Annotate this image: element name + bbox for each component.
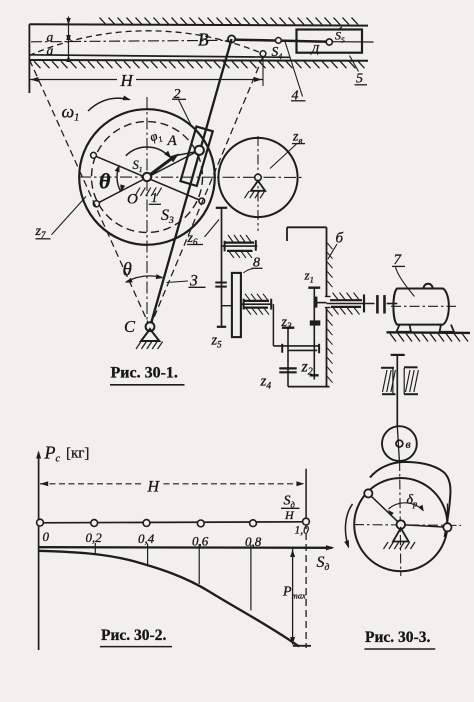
svg-text:H: H: [284, 508, 295, 522]
label S3: [161, 207, 174, 226]
label a lower: [47, 43, 54, 58]
gear zB ground hatching: [245, 191, 265, 198]
tick label 0,2: [86, 530, 103, 545]
rod bearing left block: [381, 368, 396, 394]
dimension H stroke of slider: [29, 57, 263, 87]
cam ground hatching: [384, 542, 416, 549]
label v roller: [406, 437, 411, 451]
slider block 2 on link 3: [180, 126, 212, 185]
gear z5 tall wheel: [232, 273, 241, 337]
svg-text:S5: S5: [335, 29, 345, 45]
label 4 with leader: [285, 42, 306, 104]
gear z1 bar: [308, 287, 320, 289]
graph y-axis Pc: [36, 451, 41, 651]
clutch bars on shaft I: [279, 368, 296, 372]
label S5: [335, 27, 345, 45]
dimension a (guide offset): [66, 17, 71, 63]
bottom rail hatching: [34, 61, 365, 68]
dimension Pmax: [290, 549, 295, 645]
follower rod top bar: [391, 354, 405, 356]
dimension H on graph: [40, 481, 305, 486]
left pin: [364, 489, 372, 497]
gear mesh line upper: [273, 345, 319, 347]
tick label 0,6: [192, 534, 209, 549]
shaft bottom bar: [217, 326, 226, 328]
pivot C pin: [146, 322, 155, 331]
cam horizontal centreline: [354, 524, 461, 527]
wheel horizontal centreline: [79, 176, 303, 178]
label theta at C: [123, 260, 132, 281]
svg-text:z7: z7: [35, 224, 46, 240]
caption Ris.30-1: [110, 365, 185, 385]
link from bearing B down: [272, 304, 274, 346]
svg-text:δp: δp: [407, 493, 418, 509]
scale node 1.0: [303, 518, 310, 525]
svg-text:H: H: [120, 71, 135, 90]
svg-text:H: H: [147, 479, 161, 496]
cam nose profile: [370, 462, 450, 537]
curve end tick: [293, 645, 311, 647]
scale node 0.4: [143, 520, 150, 527]
tick label 0: [43, 529, 50, 544]
force curve Pc: [39, 551, 299, 647]
label z5: [211, 333, 223, 350]
svg-text:1,0: 1,0: [295, 525, 310, 537]
motor shaft bearing pads: [330, 293, 362, 315]
omega1 rotation arrow: [88, 96, 131, 112]
shaft to motor: [387, 303, 398, 305]
shaft coupling bars: [215, 283, 227, 287]
label Sd axis: [317, 554, 330, 573]
gear wheel 1 outer rim: [79, 109, 215, 245]
svg-text:Д: Д: [311, 42, 321, 56]
cam vertical centreline: [400, 461, 401, 576]
svg-text:Pc: Pc: [44, 443, 61, 465]
vertical shaft: [221, 208, 223, 327]
spoke pin upper-left: [91, 152, 97, 158]
svg-text:0,2: 0,2: [86, 530, 103, 545]
shaft I vertical: [287, 328, 289, 387]
motor centreline: [391, 305, 456, 307]
wire guide top rail: [29, 24, 368, 25]
crank arm O-A with arrow: [147, 152, 196, 177]
roller B circle: [382, 426, 417, 461]
drop line 0.4: [147, 544, 149, 567]
gear zB wheel: [218, 138, 297, 217]
svg-text:z1: z1: [304, 268, 314, 285]
phi1 angle arc with arrow: [126, 147, 172, 158]
top rail hatching: [100, 18, 359, 25]
link 3 rocking arm C-B: [150, 39, 232, 327]
bearing B lower pad: [244, 308, 269, 315]
svg-text:в: в: [406, 437, 411, 451]
pivot O ground hatching: [135, 188, 162, 197]
label 5 with leader: [350, 56, 368, 87]
label S1: [133, 158, 143, 174]
gear zB pin: [255, 174, 262, 181]
label H: [117, 71, 136, 90]
caption Ris.30-3: [364, 629, 435, 649]
bottom rail inner line: [29, 55, 290, 58]
svg-text:θ: θ: [123, 260, 132, 281]
svg-text:S3: S3: [161, 207, 174, 226]
cam base circle: [354, 478, 447, 571]
slider 5 ram block: [297, 30, 363, 53]
motor ground hatching: [390, 334, 468, 342]
rotation arrow left: [344, 504, 352, 549]
label O: [127, 192, 138, 208]
svg-text:C: C: [124, 317, 136, 336]
theta swing angle arc at C: [125, 274, 164, 283]
svg-text:S4: S4: [272, 44, 283, 61]
bottom rail outer line: [29, 59, 368, 62]
svg-text:z2: z2: [301, 359, 313, 378]
node B right extreme position: [260, 51, 266, 57]
svg-text:Рис. 30-1.: Рис. 30-1.: [111, 365, 178, 382]
shaft II vertical: [313, 288, 315, 376]
mesh end ticks: [282, 344, 319, 354]
svg-text:ω1: ω1: [62, 102, 80, 124]
caption Ris.30-2: [100, 627, 172, 647]
dashed extreme position line C-left: [29, 58, 151, 328]
spoke pin lower-left: [93, 201, 99, 207]
gearbox wall hatching: [327, 243, 332, 383]
input pinion block: [314, 297, 318, 308]
label Sd/H fraction: [281, 494, 300, 523]
bearing A upper pad: [225, 235, 254, 243]
gear z6 bar on shaft top: [216, 207, 227, 209]
bearing A end ticks: [225, 240, 256, 251]
trajectory arc of point B (dashed): [29, 31, 263, 56]
svg-text:S1: S1: [133, 158, 143, 174]
label B: [198, 30, 209, 50]
svg-text:θ: θ: [99, 169, 111, 194]
label H graph: [144, 478, 162, 496]
svg-text:В: В: [198, 30, 209, 50]
svg-text:Pmax: Pmax: [282, 585, 306, 601]
label z3: [281, 315, 292, 331]
label C: [124, 317, 136, 336]
label Pmax: [282, 585, 306, 601]
pivot C ground hatching: [136, 342, 163, 350]
drop line 0.2: [94, 543, 96, 553]
node S4 centre of mass of link 4: [276, 38, 282, 44]
label 6 gearbox with leader: [328, 231, 344, 260]
cam support triangle: [393, 528, 409, 542]
gearbox bottom edge: [288, 386, 330, 388]
bearing right tick: [363, 295, 365, 313]
label phi1: [148, 127, 164, 147]
label Pc [kg]: [44, 443, 90, 465]
right boundary line: [305, 469, 307, 648]
coupling bars: [377, 295, 384, 313]
svg-text:z4: z4: [260, 374, 272, 392]
label z6 with leader: [187, 220, 220, 248]
bearing shaft stub upper: [222, 245, 258, 247]
input shaft through wall: [314, 302, 374, 305]
label 1: [149, 190, 161, 205]
label z7 with leader to wheel rim: [35, 197, 87, 241]
gear mesh line lower: [288, 349, 317, 351]
pin A crank pin: [195, 146, 204, 155]
gearbox casing top edge: [287, 227, 327, 241]
motor ground line: [387, 331, 471, 334]
crank pin circle (dashed): [92, 122, 203, 233]
label 8 with leader: [244, 256, 263, 274]
svg-text:7: 7: [394, 252, 403, 268]
label 3 with leader: [167, 273, 206, 290]
label a upper: [47, 30, 54, 45]
scale node 0: [37, 519, 44, 526]
delta p angle arc: [388, 503, 424, 516]
roller pin: [396, 440, 403, 447]
label S4: [272, 44, 283, 61]
svg-text:0: 0: [43, 529, 50, 544]
gearbox right wall: [325, 227, 331, 386]
guide left end cap: [28, 24, 30, 93]
motor 7 body: [393, 289, 448, 325]
S axis heavy line with arrow: [39, 545, 335, 550]
node D pin: [326, 39, 332, 45]
wheel spoke diameter 1: [94, 155, 202, 201]
gear z3 bar: [282, 327, 294, 329]
pivot C support triangle: [141, 329, 159, 341]
svg-text:a: a: [47, 43, 54, 58]
svg-text:0,4: 0,4: [138, 531, 155, 546]
follower rod: [396, 355, 398, 427]
wheel vertical centreline: [146, 97, 148, 324]
bearing shaft stub lower: [241, 303, 272, 305]
spoke pin lower-right: [199, 198, 205, 204]
label 7 with leader: [392, 252, 415, 297]
gear z2 hub block: [310, 320, 321, 325]
label z1: [304, 268, 314, 285]
motor feet: [397, 325, 455, 332]
bearing B upper pad: [243, 294, 269, 301]
tick label 0,8: [245, 534, 262, 549]
label omega1: [62, 102, 80, 124]
gear z2 bottom bar: [310, 375, 319, 379]
scale node 0.6: [197, 520, 204, 527]
wheel spoke diameter 2: [96, 152, 197, 204]
scale node 0.2: [91, 520, 98, 527]
svg-text:1: 1: [151, 190, 158, 205]
svg-text:Рис. 30-3.: Рис. 30-3.: [365, 629, 430, 646]
svg-text:0,6: 0,6: [192, 534, 209, 549]
gear zB support triangle: [251, 181, 265, 191]
rod centreline through roller: [397, 427, 399, 462]
svg-text:Sд: Sд: [317, 554, 330, 573]
cam arm to left pin: [368, 493, 401, 524]
svg-text:z5: z5: [211, 333, 223, 350]
svg-text:φ1: φ1: [148, 127, 164, 147]
label A: [167, 133, 178, 149]
svg-text:O: O: [127, 192, 138, 208]
label z2: [301, 359, 313, 378]
right pin vertical tick: [446, 504, 448, 523]
drop line 0.8: [250, 545, 252, 611]
label theta at O: [99, 169, 111, 194]
svg-text:A: A: [167, 133, 178, 149]
label 2 with leader: [172, 87, 192, 126]
rod bearing right block: [404, 367, 418, 394]
bearing A lower pad: [227, 251, 253, 258]
pivot O pin: [143, 173, 151, 181]
svg-text:Рис. 30-2.: Рис. 30-2.: [101, 627, 166, 644]
scale node 0.8: [250, 520, 257, 527]
tick label 1,0: [295, 525, 310, 537]
right pin: [443, 523, 451, 531]
bearing B end ticks: [244, 299, 272, 310]
svg-text:[кг]: [кг]: [66, 446, 89, 462]
gear zB vertical centreline: [257, 136, 259, 231]
abscissa scale line: [39, 522, 307, 523]
label D: [311, 42, 321, 56]
cam centre pin: [397, 520, 406, 529]
link shaft to z5: [222, 305, 232, 307]
label z4: [260, 374, 272, 392]
cam crank arm right: [401, 525, 448, 528]
motor terminal bump: [424, 284, 433, 289]
drop line 0.6: [198, 544, 200, 584]
label zB with leader: [270, 130, 305, 169]
tick label 0,4: [138, 531, 155, 546]
guide centreline (dash-dot): [31, 40, 229, 42]
node B pin: [228, 35, 235, 42]
link 4 connecting rod B-D: [233, 40, 374, 42]
theta angle arc at O: [115, 165, 126, 193]
dashed extreme position line C-right: [150, 57, 263, 328]
label delta p: [407, 493, 418, 509]
